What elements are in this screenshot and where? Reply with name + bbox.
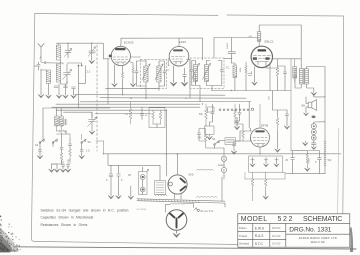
svg-text:Capacities Shown in Microfa: Capacities Shown in Microfarads (41, 216, 94, 220)
V1 cathode leads (108, 59, 134, 104)
psu bleeder resistor 5000 (306, 153, 311, 167)
junction dots input (60, 43, 93, 83)
feed wire to V4 grid (248, 102, 250, 129)
title block (238, 214, 350, 247)
detector capacitor (211, 104, 214, 118)
ground V1b (130, 77, 135, 87)
OT wires + speaker loop (295, 67, 325, 97)
mains dropper box (220, 131, 251, 144)
oscillator coil L4 (55, 116, 58, 126)
ground psu bleeder (305, 167, 310, 172)
T.C. tone cap column (224, 38, 236, 70)
lowbus dots (103, 153, 261, 155)
dial lamps (139, 167, 149, 195)
padder chain 3 (57, 131, 82, 164)
psu dropper resistor on right wire (324, 96, 332, 174)
top bus wire (121, 38, 203, 60)
T2 side capacitors (190, 66, 223, 75)
heater wire (108, 154, 160, 181)
gang tuning capacitor C1a (63, 64, 72, 82)
feed wire to V4 screen (269, 91, 278, 111)
bleeder resistor 1 (251, 172, 254, 201)
ground speaker (304, 112, 309, 116)
ground pad4 (79, 154, 84, 159)
svg-text:S3: S3 (88, 140, 92, 144)
top grid wire (57, 43, 113, 59)
svg-text:S.T.C: S.T.C (255, 242, 264, 246)
IF transformer T1 dashed box (141, 60, 167, 89)
wafer switch contact row (208, 107, 254, 112)
svg-text:5000: 5000 (309, 157, 311, 163)
padder chain 2 (60, 134, 63, 164)
ground AF (234, 125, 239, 130)
ground v4 left (231, 149, 236, 154)
gram jack P (215, 148, 227, 176)
gang dashed link (96, 45, 98, 151)
capacitor near V3 (284, 70, 287, 77)
RF choke above V3 (248, 32, 260, 42)
tube V2 EF39 (169, 40, 189, 66)
ground pad1 (37, 154, 42, 159)
ground C11 (116, 186, 121, 199)
svg-text:Checked: Checked (239, 242, 250, 246)
svg-text:10000: 10000 (227, 42, 229, 49)
B+ rail (214, 25, 301, 69)
output transformer (300, 68, 309, 85)
tone coil below TC (232, 63, 237, 91)
tube V3 EBL21 (251, 40, 274, 68)
resistor below V3 (276, 66, 279, 79)
ground osc2 (54, 164, 59, 172)
svg-text:Resistances Shown in Ohms: Resistances Shown in Ohms (41, 223, 88, 227)
switch S2 contacts (67, 63, 85, 108)
psu horizontal wire (245, 173, 285, 180)
svg-text:EF39: EF39 (261, 124, 269, 128)
svg-text:E.W.S: E.W.S (255, 227, 265, 231)
mains cap (198, 129, 206, 142)
ground V1 (112, 82, 117, 87)
S4 mains switch (212, 137, 220, 148)
speaker (302, 94, 326, 112)
capacitor C1 (left input) (35, 62, 41, 69)
ground trimmer (71, 89, 76, 99)
svg-text:Drawn: Drawn (239, 226, 247, 230)
mains squiggle (196, 196, 217, 199)
svg-text:EBL21: EBL21 (265, 40, 274, 44)
svg-text:S1: S1 (35, 143, 39, 147)
gang capacitor C1c (osc) (88, 112, 97, 129)
ground v4 right (284, 124, 289, 129)
trimmer caps (54, 86, 76, 89)
V4 right network (276, 110, 288, 147)
svg-text:Switches S1–S4 Ganged and: Switches S1–S4 Ganged and shown in R.C. … (41, 208, 129, 212)
cap + ground V2b (181, 68, 187, 86)
wires AF (235, 104, 240, 125)
ground V3 (252, 81, 257, 86)
mains resistor (198, 132, 215, 149)
ground C10 (108, 186, 113, 199)
ground L3 (46, 94, 51, 99)
V5 top wire (177, 154, 179, 168)
ground jack chain (311, 145, 316, 149)
ground input 4 (63, 86, 68, 98)
AF coupling cap (238, 107, 241, 118)
wires below V3 (278, 66, 286, 91)
ground osc3 (60, 166, 65, 172)
ground antenna (38, 69, 43, 98)
filter cap C10 (106, 165, 113, 185)
ground C1c (89, 130, 94, 135)
detector resistor R3 (199, 104, 207, 125)
svg-text:SCHEMATIC: SCHEMATIC (303, 216, 342, 223)
notes text (41, 208, 129, 227)
AVC resistor R2 (140, 107, 148, 119)
V1 top lead (120, 38, 122, 44)
svg-text:S4: S4 (212, 137, 216, 141)
page bottom edge (14, 247, 356, 249)
ground V6 (173, 230, 179, 237)
volume control box (149, 108, 165, 128)
phono jack chain (311, 116, 325, 146)
ground C1a (56, 94, 61, 99)
paper fold faint line (338, 128, 339, 213)
psu bottom wire (288, 173, 325, 175)
T1 side capacitors (135, 68, 166, 76)
oscillator coil L5 (57, 116, 68, 134)
svg-text:Gram: Gram (218, 163, 224, 167)
svg-text:522: 522 (278, 216, 294, 223)
power transformer horizontal (137, 177, 225, 207)
ground detector (207, 135, 212, 140)
wire L2 bottom row (39, 60, 68, 94)
padder cap 4 (80, 147, 90, 155)
ground osc4 (65, 166, 70, 172)
svg-text:2.2: 2.2 (87, 70, 91, 74)
gram jack G (218, 156, 227, 167)
IF transformer T2 dashed box (190, 58, 224, 89)
label 6v on TC (194, 208, 215, 213)
switch S2 mid (52, 139, 57, 147)
svg-text:14-2-52: 14-2-52 (272, 243, 281, 246)
svg-text:WAIHI NZ: WAIHI NZ (311, 240, 325, 244)
V3 leads (240, 59, 301, 91)
bleeder resistor 2 (264, 172, 267, 191)
psu filter cap C12 (285, 158, 294, 174)
ground OT (311, 91, 316, 96)
tube V6 (166, 210, 187, 231)
svg-text:T.C.: T.C. (226, 66, 231, 70)
psu cap C13 (307, 151, 321, 174)
ground pad2 (61, 163, 63, 165)
tube V1 ECH35 (111, 40, 134, 65)
antenna coil L1 (57, 43, 61, 60)
long wire lower bus (96, 141, 341, 154)
RF tuning capacitor C1b (88, 43, 95, 56)
AF coupling resistor (234, 104, 237, 121)
tone coil + cap right of V3 (291, 59, 297, 151)
scan smudge bottom-left (0, 216, 21, 253)
ground psu small (303, 141, 308, 146)
ground v4 cathode (275, 147, 280, 152)
wires V4 to psu (224, 128, 260, 179)
antenna A (38, 44, 57, 64)
OT cap (294, 74, 297, 81)
speaker-trans squiggle (197, 168, 214, 171)
osc bottom caps (52, 160, 71, 167)
svg-text:DRG.No. 1331: DRG.No. 1331 (289, 227, 331, 234)
ground bleeder (263, 191, 268, 199)
ballast resistor (155, 181, 166, 195)
coil L3 (wave trap) (47, 70, 51, 84)
tube V5 rectifier (168, 168, 194, 199)
ink streak bottom-right (350, 227, 353, 252)
svg-text:30–29093: 30–29093 (137, 209, 148, 211)
psu ground box 1 (249, 156, 288, 174)
V6 top coil (166, 203, 194, 212)
ground osc1 (49, 164, 57, 172)
switch S3 (81, 139, 91, 147)
svg-text:6X5: 6X5 (189, 173, 194, 177)
svg-text:R.&.S: R.&.S (255, 234, 264, 238)
T1 wires (131, 57, 170, 98)
svg-text:ECH35: ECH35 (124, 40, 134, 44)
svg-text:Traced: Traced (239, 234, 248, 238)
oscillator top wire (43, 108, 110, 140)
svg-text:13-2-52: 13-2-52 (272, 235, 281, 238)
svg-text:EF39: EF39 (179, 40, 187, 44)
svg-text:1.5: 1.5 (86, 149, 90, 153)
ground mid (128, 186, 133, 199)
ground V2 (170, 66, 176, 86)
padder cap 1 (39, 147, 42, 155)
svg-text:6v on T.C.: 6v on T.C. (201, 209, 215, 213)
bus junction dots (130, 90, 232, 111)
ground below C1b (89, 53, 94, 64)
tube V4 (251, 104, 270, 147)
psu top wire (291, 151, 307, 158)
svg-text:18-8-50: 18-8-50 (272, 227, 281, 230)
coil L2 (57, 64, 61, 82)
svg-text:AKRAD RADIO CORP. LTD: AKRAD RADIO CORP. LTD (299, 236, 337, 240)
svg-text:8H: 8H (302, 103, 306, 107)
bus wires middle (52, 88, 291, 113)
svg-text:MODEL: MODEL (241, 216, 268, 223)
detector box (205, 118, 215, 135)
AVC resistor R1 (125, 102, 132, 124)
wire to volume (165, 110, 167, 176)
svg-text:P: P (223, 168, 225, 172)
switch S1 (35, 139, 45, 147)
border frame (31, 14, 343, 245)
ballast bump coil (156, 194, 167, 196)
filter cap C11 (117, 165, 123, 185)
svg-text:250: 250 (198, 137, 203, 140)
V2 leads (168, 59, 195, 99)
T2 wires (192, 61, 222, 102)
V4 grid network left (233, 118, 251, 150)
variable capacitor C2 (ant trim) (65, 43, 72, 58)
